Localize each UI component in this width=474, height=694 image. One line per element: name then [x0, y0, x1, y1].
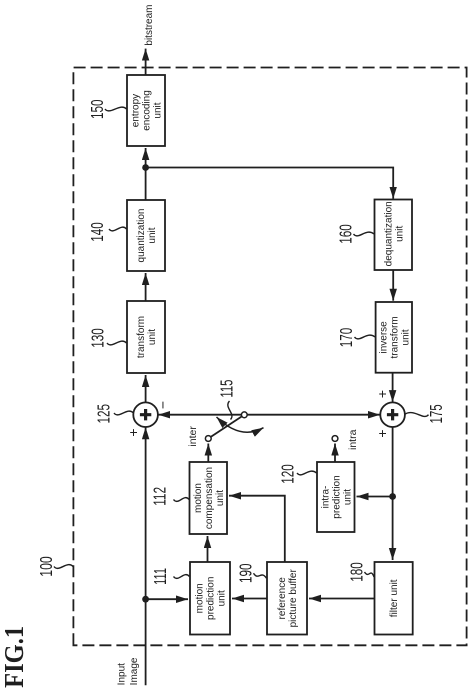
svg-text:180: 180	[347, 562, 367, 582]
svg-text:intra: intra	[347, 429, 359, 450]
svg-text:−: −	[155, 401, 171, 409]
svg-text:inter: inter	[187, 426, 199, 447]
svg-text:112: 112	[150, 487, 170, 506]
svg-text:FIG.1: FIG.1	[0, 626, 29, 688]
svg-text:120: 120	[278, 464, 298, 484]
svg-text:filter unit: filter unit	[389, 579, 400, 617]
svg-text:170: 170	[336, 328, 356, 348]
svg-text:190: 190	[236, 563, 256, 583]
svg-text:160: 160	[336, 224, 356, 244]
svg-text:150: 150	[87, 99, 107, 119]
svg-text:125: 125	[94, 404, 114, 424]
svg-text:175: 175	[426, 404, 446, 423]
svg-text:100: 100	[36, 556, 56, 577]
svg-text:140: 140	[87, 222, 107, 242]
svg-text:Input: Input	[117, 663, 128, 685]
svg-text:130: 130	[88, 328, 108, 348]
svg-text:111: 111	[150, 568, 170, 585]
svg-text:bitstream: bitstream	[144, 4, 155, 45]
svg-text:+: +	[374, 429, 390, 437]
svg-text:referencepicture buffer: referencepicture buffer	[277, 569, 299, 628]
svg-text:115: 115	[217, 380, 237, 398]
svg-text:Image: Image	[129, 657, 140, 685]
svg-text:+: +	[125, 428, 141, 436]
svg-text:+: +	[374, 390, 390, 398]
